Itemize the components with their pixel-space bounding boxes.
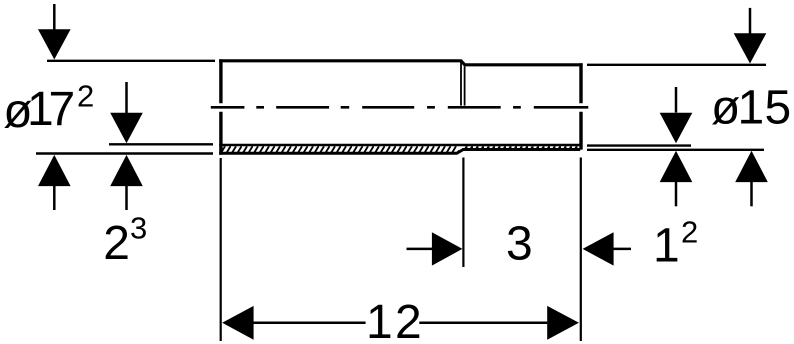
svg-text:2: 2 (77, 79, 94, 114)
svg-text:7: 7 (49, 83, 76, 136)
svg-text:5: 5 (765, 82, 792, 135)
svg-text:2: 2 (395, 296, 422, 344)
svg-text:3: 3 (506, 218, 533, 271)
svg-text:2: 2 (681, 215, 698, 250)
svg-text:2: 2 (103, 217, 130, 270)
svg-text:1: 1 (366, 296, 393, 344)
svg-text:1: 1 (653, 220, 680, 273)
svg-text:3: 3 (130, 211, 147, 246)
svg-text:1: 1 (738, 82, 765, 135)
svg-text:ø: ø (711, 82, 740, 135)
